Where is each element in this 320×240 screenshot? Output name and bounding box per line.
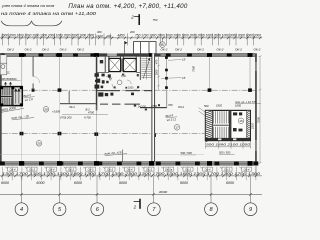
- svg-text:Об-2: Об-2: [178, 105, 184, 109]
- grid bubble axis 4: [15, 203, 28, 216]
- window labels OK-2 top row: [7, 46, 261, 51]
- bay dimension numbers 6000 9000: [1, 181, 235, 185]
- axis flag circle B: [160, 38, 166, 47]
- handwritten (300) 2000 left: [0, 104, 24, 112]
- handwritten pom pr x19 right: [235, 100, 261, 104]
- top dimension line: [0, 37, 262, 39]
- svg-text:кл 2 11: кл 2 11: [167, 117, 177, 122]
- svg-text:6000: 6000: [74, 181, 83, 185]
- svg-text:кл 2 8: кл 2 8: [25, 97, 34, 102]
- wall x=166 with column blobs: [165, 56, 167, 90]
- door opening and swing arc in wall x=33: [33, 77, 34, 84]
- svg-text:ОК-2: ОК-2: [60, 47, 67, 51]
- door flag marker: [125, 41, 128, 53]
- entrance vestibule block above top wall: [134, 42, 156, 54]
- svg-text:План на отм. +4,200, +7,800, +: План на отм. +4,200, +7,800, +11,400: [68, 3, 188, 10]
- svg-text:+3,600: +3,600: [52, 109, 61, 113]
- right corner extension line: [255, 166, 257, 176]
- longitudinal axis line B (y=90): [2, 89, 255, 91]
- corridor wall y=107.6: [140, 107, 167, 108]
- svg-text:ОК-3: ОК-3: [224, 167, 230, 171]
- corridor stub wall x=69: [68, 91, 71, 103]
- left staircase block: [0, 87, 22, 106]
- svg-text:(08) ВМ0840: (08) ВМ0840: [1, 77, 17, 81]
- svg-text:500 / 500: 500 / 500: [219, 150, 231, 154]
- core WC fixtures and blobs: [95, 73, 135, 96]
- svg-text:ВУ: ВУ: [109, 77, 113, 80]
- svg-text:ОК-3: ОК-3: [107, 167, 113, 171]
- right stair top dimension texts: [204, 104, 241, 109]
- leader texts 15: [161, 58, 186, 80]
- axis 5 faint line lower: [59, 92, 61, 163]
- svg-text:500: 500: [204, 104, 209, 108]
- svg-text:узел плана 4 этажа на отм: узел плана 4 этажа на отм: [1, 3, 54, 8]
- handwritten pom pr x19 middle: [104, 150, 127, 156]
- core small circle symbol: [117, 80, 122, 85]
- svg-text:9000: 9000: [119, 181, 128, 185]
- right staircase left hatched wall: [205, 110, 212, 141]
- svg-text:ОК-2: ОК-2: [161, 47, 168, 51]
- svg-text:40300: 40300: [159, 190, 168, 194]
- svg-text:0,00: 0,00: [121, 75, 126, 78]
- svg-text:(300) 2000: (300) 2000: [0, 106, 16, 113]
- right outside vertical dimension line: [259, 56, 262, 164]
- svg-text:ОК-4: ОК-4: [244, 167, 250, 171]
- svg-text:4700: 4700: [151, 104, 157, 108]
- svg-text:20: 20: [37, 142, 41, 146]
- elevator shaft 2: [123, 58, 136, 71]
- svg-text:5: 5: [58, 207, 62, 213]
- svg-text:ОК-2: ОК-2: [175, 47, 182, 51]
- svg-text:6000: 6000: [1, 181, 10, 185]
- right staircase inner wall: [229, 111, 231, 140]
- svg-text:пом. пр. х 19 770: пом. пр. х 19 770: [235, 100, 257, 104]
- svg-text:ЛК-2: ЛК-2: [68, 105, 75, 109]
- svg-text:ОК-3: ОК-3: [185, 167, 191, 171]
- partition line x=122.6 lower: [122, 150, 124, 163]
- right exterior wall: [255, 54, 257, 165]
- top dimension extension lines: [2, 33, 253, 45]
- top exterior wall band: [0, 54, 257, 57]
- stairwell wall x=152 double-line: [152, 53, 155, 164]
- svg-text:1600: 1600: [235, 104, 241, 108]
- svg-text:9000: 9000: [180, 181, 189, 185]
- core extra speckles: [114, 74, 140, 89]
- svg-text:6000: 6000: [226, 181, 235, 185]
- svg-text:ОК-2: ОК-2: [217, 47, 224, 51]
- longitudinal axis line C (y=133.6): [2, 133, 205, 135]
- grid bubble axis 5: [53, 203, 66, 216]
- left staircase landing arrows: [15, 89, 20, 104]
- core wall x=105 vertical: [105, 56, 106, 72]
- svg-text:ОК-2: ОК-2: [77, 47, 84, 51]
- grid bubble axis 7: [147, 203, 160, 216]
- right staircase room marks: [233, 112, 243, 131]
- svg-text:4: 4: [20, 207, 23, 213]
- wall stub x=166.8 between corridors: [166, 91, 168, 107]
- stair up arrow: [143, 58, 150, 79]
- main stair treads: [141, 57, 151, 80]
- svg-text:ОК-3: ОК-3: [146, 167, 152, 171]
- svg-text:750: 750: [153, 18, 158, 22]
- svg-text:4,700: 4,700: [84, 116, 91, 120]
- svg-text:500 / 500: 500 / 500: [181, 151, 193, 155]
- circled room number 28: [43, 107, 49, 113]
- grid bubble axis 8: [205, 203, 218, 216]
- right staircase bottom wall band: [205, 138, 250, 141]
- left hall partition wall x=33: [33, 56, 34, 90]
- right staircase lower dim line: [205, 141, 250, 149]
- axis 4 faint line lower: [21, 92, 23, 163]
- right staircase treads upper flight: [214, 111, 229, 123]
- svg-text:ОК-2: ОК-2: [197, 47, 204, 51]
- svg-text:ОК-2: ОК-2: [25, 47, 32, 51]
- svg-text:1500: 1500: [155, 69, 159, 75]
- top dimension tick slashes: [1, 37, 261, 40]
- section marker 2 (top): [130, 14, 139, 25]
- svg-text:2С: 2С: [7, 70, 10, 74]
- overall dimension ticks: [20, 193, 251, 196]
- bottom exterior wall band: [0, 162, 257, 166]
- svg-text:6000: 6000: [36, 181, 45, 185]
- text 500 500 pairs underlined: [181, 150, 231, 155]
- svg-text:ОК-4: ОК-4: [49, 167, 55, 171]
- svg-text:4450: 4450: [117, 34, 124, 38]
- svg-text:28: 28: [44, 108, 48, 112]
- svg-text:2: 2: [130, 14, 134, 19]
- bottom dimension line: [0, 175, 262, 177]
- axis extension lines to overall line: [22, 176, 251, 194]
- svg-text:ОК-4: ОК-4: [10, 167, 16, 171]
- svg-text:6: 6: [96, 207, 100, 213]
- svg-text:ОК-5а: ОК-5а: [165, 167, 173, 171]
- entrance door gap in top wall: [107, 53, 117, 55]
- svg-text:7500: 7500: [192, 66, 196, 72]
- circled room number 17: [174, 125, 180, 131]
- svg-text:1920: 1920: [216, 104, 222, 108]
- top wall core solid segment: [96, 54, 161, 57]
- svg-text:8: 8: [209, 207, 213, 213]
- svg-text:7500: 7500: [256, 116, 260, 123]
- svg-text:ОК-2: ОК-2: [7, 47, 14, 51]
- left staircase treads: [1, 87, 12, 105]
- svg-text:750 1700 1800 2000 1000 2000 1: 750 1700 1800 2000 1000 2000 1000 2000 2…: [135, 34, 261, 38]
- columns on axis B: [32, 88, 252, 92]
- svg-text:500 1890 2100 1050: 500 1890 2100 1050: [206, 143, 251, 147]
- elevator shaft 1: [109, 58, 121, 71]
- curly brace under note: [1, 21, 62, 26]
- left exterior wall: [0, 54, 2, 165]
- svg-text:2000 2000 1000 2000 2000 1000: 2000 2000 1000 2000 2000 1000 2000 1000 …: [0, 34, 94, 38]
- corridor wall y=104 right segment: [100, 104, 140, 105]
- svg-text:ОК-5: ОК-5: [88, 167, 94, 171]
- right staircase outer walls: [205, 110, 250, 140]
- grid bubble axis 9: [244, 203, 257, 216]
- svg-text:1300 1700 1300 1700 1300 1800: 1300 1700 1300 1700 1300 1800 1300 1700 …: [2, 172, 260, 176]
- axis 9 line in right hall: [249, 57, 251, 90]
- overall dimension line: [0, 193, 262, 195]
- bottom dimension tick slashes: [1, 175, 257, 178]
- svg-text:17: 17: [175, 126, 179, 130]
- note Vid-3 kl 2 11: [165, 113, 177, 122]
- svg-text:ОК-3: ОК-3: [68, 167, 74, 171]
- svg-text:7: 7: [152, 207, 156, 213]
- machine room stub walls above shafts: [109, 56, 136, 58]
- left side porch blocks: [0, 55, 7, 75]
- svg-text:470: 470: [155, 59, 159, 64]
- svg-text:на плане 4 этажа на отм +11,40: на плане 4 этажа на отм +11,400: [1, 11, 96, 16]
- svg-text:2: 2: [133, 205, 137, 210]
- top wall piers: [0, 53, 232, 56]
- core corridor wall y=90.6: [97, 90, 151, 91]
- svg-text:1920: 1920: [96, 34, 103, 38]
- axis 8 line in right hall: [209, 57, 211, 90]
- left hall arrows: [4, 82, 11, 88]
- right staircase right hatched wall: [247, 110, 251, 140]
- grid bubble stubs: [22, 194, 251, 203]
- svg-text:ОК-4: ОК-4: [127, 167, 133, 171]
- svg-text:ОК-3: ОК-3: [29, 167, 35, 171]
- note Vid-2 kl 2 8: [23, 93, 35, 103]
- section marker 2 (bottom): [133, 199, 140, 210]
- circled room number 20: [36, 141, 42, 147]
- top wall axis columns: [19, 53, 253, 57]
- slot between elevator shafts: [121, 59, 123, 71]
- bottom wall axis columns: [19, 161, 253, 166]
- left staircase corner columns: [0, 86, 23, 106]
- corridor wall under shafts y=72.4: [97, 71, 140, 73]
- small marks cluster near corridor: [134, 104, 160, 110]
- bottom wall piers: [0, 161, 258, 165]
- svg-text:16: 16: [239, 119, 243, 123]
- stair left rail x=140: [139, 56, 142, 80]
- svg-text:14/100: 14/100: [138, 104, 147, 108]
- faint service line y=154.6: [0, 154, 204, 156]
- svg-text:ОК-2: ОК-2: [42, 47, 49, 51]
- right stair leader lines: [199, 108, 211, 118]
- svg-text:700: 700: [168, 103, 173, 107]
- svg-text:(750) 200: (750) 200: [60, 116, 72, 120]
- vertical dimension inside room x=158.5: [157, 56, 160, 91]
- machine room blob: [100, 60, 103, 63]
- svg-text:15: 15: [182, 58, 186, 62]
- dim line under 4700: [62, 114, 108, 116]
- handwritten pom pr 18 left: [11, 114, 34, 120]
- svg-text:2510: 2510: [250, 123, 254, 130]
- core door swing arcs: [106, 77, 138, 91]
- bottom extension lines short: [2, 167, 256, 180]
- grid bubble axis 6: [91, 203, 104, 216]
- columns on axis C: [20, 132, 156, 137]
- svg-text:ОК-2: ОК-2: [254, 47, 261, 51]
- right staircase treads lower flight: [214, 127, 229, 140]
- right staircase mid landing line: [213, 124, 231, 126]
- bottom boxed window labels: [5, 167, 251, 172]
- corridor wall y=103.5 left segment: [60, 103, 96, 104]
- svg-text:ОК-2: ОК-2: [235, 47, 242, 51]
- core wall x=96 vertical: [96, 56, 98, 111]
- axis 6 line lower: [96, 105, 98, 162]
- svg-text:1500: 1500: [128, 87, 134, 90]
- svg-text:9: 9: [249, 207, 252, 213]
- axis 4 line in left hall: [21, 57, 23, 90]
- core tiny texts: [109, 75, 134, 90]
- circled room number 16: [238, 118, 244, 124]
- middle texts LK-2 and dims: [60, 103, 184, 120]
- left hall text VM0840 underlined: [1, 77, 21, 81]
- svg-text:4700: 4700: [88, 111, 94, 115]
- left porch circle symbol: [1, 65, 5, 69]
- svg-text:ОК-4: ОК-4: [205, 167, 211, 171]
- svg-text:15: 15: [182, 76, 186, 80]
- svg-text:200: 200: [106, 34, 112, 38]
- axis 5 line in left hall: [59, 57, 61, 90]
